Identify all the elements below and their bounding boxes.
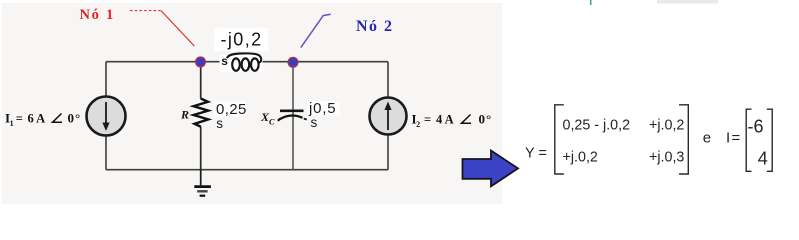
pointer line No 2 [301, 14, 331, 47]
svg-text:Nó 1: Nó 1 [80, 7, 115, 23]
svg-text:s: s [221, 54, 228, 68]
svg-text:-6: -6 [748, 116, 764, 136]
wire top [106, 61, 388, 63]
wire bottom [106, 169, 388, 171]
svg-text:6 A: 6 A [28, 112, 46, 126]
matrix Y left bracket [555, 105, 564, 174]
label I2 = 4 A angle 0 [412, 112, 493, 130]
svg-text:+j.0,3: +j.0,3 [649, 150, 684, 166]
inductor [214, 28, 268, 72]
svg-text:+j.0,2: +j.0,2 [563, 150, 598, 166]
current source I1 [87, 97, 126, 136]
top edge teal artifact [590, 0, 591, 5]
resistor R [194, 99, 209, 127]
svg-text:R: R [180, 108, 189, 122]
node 2 [288, 57, 298, 67]
svg-text:=: = [424, 113, 431, 127]
matrix Y right bracket [679, 105, 688, 174]
capacitor XC [278, 111, 307, 121]
wire right branch [387, 62, 389, 170]
svg-text:4 A: 4 A [436, 113, 454, 127]
vector I left bracket [746, 109, 751, 171]
vector I right bracket [767, 109, 772, 171]
svg-text:-j0,2: -j0,2 [221, 30, 263, 50]
wire resistor branch [200, 62, 202, 170]
svg-text:+j.0,2: +j.0,2 [649, 117, 684, 133]
svg-text:s: s [216, 116, 223, 131]
svg-text:C: C [269, 117, 275, 127]
svg-text:0,25 - j.0,2: 0,25 - j.0,2 [563, 117, 631, 133]
node 1 [196, 57, 206, 67]
value 0,25 s [214, 101, 247, 131]
wire capacitor branch [292, 62, 294, 170]
vector I entries [748, 116, 768, 168]
svg-text:2: 2 [416, 120, 420, 129]
top edge gray bar artifact [657, 0, 718, 4]
pointer line No 1 [130, 11, 194, 46]
svg-text:4: 4 [758, 148, 768, 168]
svg-text:e: e [703, 130, 711, 147]
svg-text:Y =: Y = [525, 146, 547, 162]
svg-text:0°: 0° [68, 111, 82, 126]
svg-text:s: s [311, 115, 318, 130]
svg-text:Nó 2: Nó 2 [356, 18, 394, 35]
value j0,5 s [308, 100, 340, 130]
svg-text:=: = [732, 130, 741, 147]
svg-text:=: = [16, 112, 23, 126]
label XC [260, 110, 275, 127]
svg-text:I: I [726, 130, 730, 147]
ground [194, 170, 211, 196]
label I = [726, 130, 741, 147]
blue block arrow [463, 151, 519, 187]
wire left branch [105, 62, 107, 170]
label I1 = 6 A angle 0 [5, 111, 81, 129]
svg-text:1: 1 [10, 119, 14, 128]
svg-text:0°: 0° [479, 112, 493, 127]
current source I2 [370, 98, 407, 135]
matrix Y entries [563, 117, 685, 165]
scan background [2, 3, 502, 204]
